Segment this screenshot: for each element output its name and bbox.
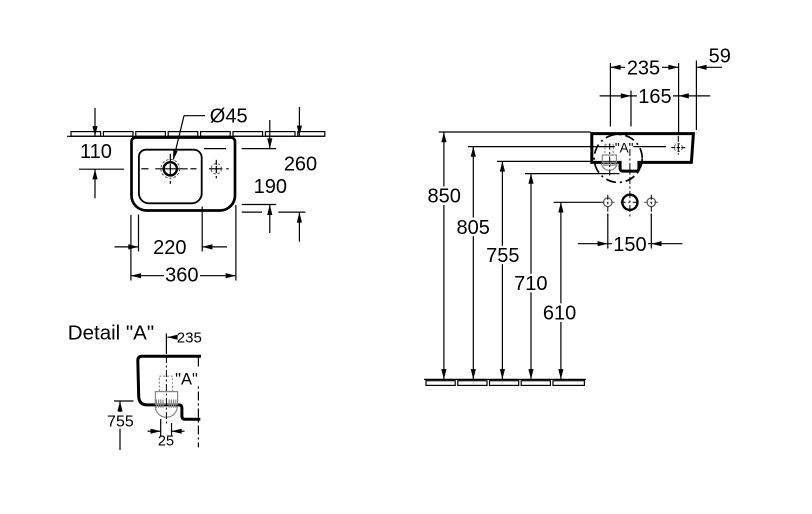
bracket centerline (side view) <box>609 144 611 178</box>
svg-text:260: 260 <box>284 154 317 176</box>
svg-text:360: 360 <box>165 265 198 287</box>
detail cut line <box>197 358 199 448</box>
label A (side view) <box>615 141 634 156</box>
svg-text:235: 235 <box>177 329 202 346</box>
svg-text:"A": "A" <box>175 370 198 388</box>
detail circle A boundary (side view) <box>594 134 642 182</box>
basin profile outline (side view) <box>592 134 694 172</box>
detail bracket hidden outline <box>155 376 177 417</box>
side view: 755 extension line <box>497 160 592 162</box>
dimension 360 <box>131 205 236 287</box>
side view: 805 extension line <box>468 146 666 148</box>
detail bracket centerline <box>165 334 167 424</box>
svg-text:755: 755 <box>486 245 519 267</box>
bowl inner outline (plan view) <box>139 150 202 204</box>
svg-text:710: 710 <box>514 273 547 295</box>
centerline left stub / 110 lower reference <box>79 168 124 170</box>
svg-text:610: 610 <box>543 303 576 325</box>
dimension 610 <box>541 202 579 379</box>
dimension 710 <box>512 174 550 380</box>
svg-text:220: 220 <box>153 237 186 259</box>
svg-text:165: 165 <box>638 86 671 108</box>
right fixing hole (side view) <box>644 195 658 217</box>
tap hole (side view) <box>671 136 685 155</box>
dimension 755 <box>484 161 522 379</box>
floor hatch <box>426 381 584 386</box>
svg-text:25: 25 <box>158 434 174 450</box>
svg-text:235: 235 <box>627 57 660 79</box>
side view: 610 extension line <box>554 201 604 203</box>
dimension 850 <box>425 132 463 379</box>
basin outer outline (plan view) <box>132 138 236 211</box>
dimension 235 (side view) <box>610 57 678 79</box>
wall hatch (plan view) <box>71 132 325 137</box>
detail outline (Detail A view) <box>138 356 201 419</box>
svg-text:150: 150 <box>613 234 646 256</box>
svg-text:Ø45: Ø45 <box>210 106 248 128</box>
drain hole (side view) <box>621 195 639 210</box>
dimension 805 <box>454 147 492 380</box>
floor line <box>424 378 586 380</box>
dimension 190 <box>204 120 287 233</box>
svg-text:"A": "A" <box>615 141 634 156</box>
svg-text:59: 59 <box>709 45 731 67</box>
dimension 165 (side view) <box>600 86 711 108</box>
dimension 25 (detail view) <box>148 419 185 450</box>
drain centerline (side view) <box>629 149 631 217</box>
dimension 110 <box>80 108 112 198</box>
dimension 235 (detail view) <box>167 329 201 346</box>
tap hole O45 (plan view) <box>161 154 180 184</box>
label A (detail view) <box>173 368 200 388</box>
side view: 850 extension line <box>439 131 591 133</box>
top extension lines (side view) <box>610 61 696 135</box>
svg-text:110: 110 <box>80 141 112 163</box>
dimension 220 <box>115 207 228 259</box>
fixing bracket hidden outline (side view) <box>601 145 617 171</box>
svg-text:850: 850 <box>428 186 461 208</box>
svg-text:755: 755 <box>107 413 134 430</box>
svg-text:Detail "A": Detail "A" <box>68 322 154 345</box>
dimension 260 <box>242 107 317 242</box>
svg-text:805: 805 <box>457 217 490 239</box>
side view: 710 extension line <box>525 173 620 175</box>
dimension 59 (side view) <box>696 45 731 70</box>
svg-text:190: 190 <box>254 176 287 198</box>
wall line (plan view) <box>67 135 325 137</box>
dimension 150 <box>578 214 683 257</box>
leader O45 <box>173 106 248 161</box>
second hole crosshair (plan view) <box>211 160 221 179</box>
centerline through holes (plan view) <box>141 168 228 170</box>
dimension 755 (detail view) <box>107 401 134 450</box>
left fixing hole (side view) <box>601 195 615 217</box>
